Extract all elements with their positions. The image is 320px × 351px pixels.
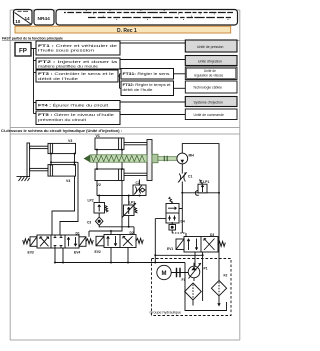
svg-text:V1: V1 bbox=[96, 134, 100, 138]
svg-text:Unité de commande: Unité de commande bbox=[194, 113, 224, 117]
svg-text:Ci-dessous le schéma du circui: Ci-dessous le schéma du circuit hydrauli… bbox=[1, 128, 122, 133]
FT3 box bbox=[36, 70, 118, 82]
T collector line bbox=[155, 254, 202, 256]
FT5 box bbox=[36, 111, 120, 125]
svg-text:M: M bbox=[162, 271, 167, 277]
svg-text:C3: C3 bbox=[87, 221, 91, 225]
LP collector bbox=[99, 227, 134, 235]
wire FT5 to SC6 bbox=[120, 114, 185, 116]
svg-text:V3: V3 bbox=[68, 139, 72, 143]
pump P1 bbox=[188, 266, 200, 278]
flow control C2 bbox=[133, 185, 146, 196]
wire FT32 to SC4 bbox=[174, 87, 186, 89]
svg-text:Unité de pression: Unité de pression bbox=[197, 45, 224, 49]
svg-text:Système d’injection: Système d’injection bbox=[194, 100, 223, 104]
FAST wires bbox=[31, 43, 185, 115]
clamp rod top bbox=[30, 146, 48, 148]
distributor D1 bbox=[23, 235, 94, 248]
cylinder V4 bbox=[48, 165, 76, 177]
spine bbox=[33, 49, 35, 114]
svg-text:EV4: EV4 bbox=[74, 251, 80, 255]
svg-text:débit de l’huile: débit de l’huile bbox=[38, 77, 78, 81]
cylinder V2 bbox=[95, 169, 124, 181]
svg-text:F2: F2 bbox=[224, 274, 228, 278]
wire FT4 to SC5 bbox=[120, 101, 185, 103]
svg-text:Unité de: Unité de bbox=[204, 69, 216, 73]
cylinder V1 bbox=[95, 138, 124, 150]
SC4 Technologie cablee bbox=[185, 81, 237, 93]
svg-text:10: 10 bbox=[15, 19, 21, 24]
FP box bbox=[15, 43, 31, 57]
svg-text:LP1: LP1 bbox=[203, 180, 209, 184]
cylinder V3 bbox=[48, 143, 76, 153]
tan D.Rec bar bbox=[15, 26, 231, 33]
screw collar bbox=[152, 154, 158, 163]
relief LP2 bbox=[94, 196, 108, 218]
svg-text:LP3: LP3 bbox=[129, 200, 135, 204]
SC5 Systeme d'injection bbox=[185, 97, 237, 107]
svg-text:Unité d’injection: Unité d’injection bbox=[198, 59, 222, 63]
clamp platen bbox=[27, 143, 30, 177]
svg-text:C2: C2 bbox=[136, 181, 140, 185]
FT31 box bbox=[121, 69, 174, 80]
pressure rail to return bbox=[182, 192, 219, 194]
FT32 box bbox=[121, 81, 174, 96]
schematic grey frame bbox=[10, 134, 240, 340]
arabic exam title line 1+2 (squiggle) bbox=[64, 13, 233, 18]
wire spine to FT4 bbox=[34, 102, 37, 104]
dashed groupe box bbox=[152, 259, 232, 316]
wires D1 bottom bbox=[55, 248, 63, 263]
svg-text:débit de l’huile: débit de l’huile bbox=[123, 88, 153, 92]
wire FT31 to SC3 bbox=[174, 73, 186, 75]
wire V4 port down jog to D1-A bbox=[52, 176, 75, 235]
screw tip bbox=[84, 155, 91, 162]
clamp rod bottom bbox=[30, 168, 48, 170]
svg-text:D1: D1 bbox=[76, 231, 80, 235]
diagonal in page box bbox=[15, 13, 32, 25]
SC6 Unite de commande bbox=[185, 109, 237, 120]
relief LP3 bbox=[122, 196, 138, 228]
SC3 Unite de regulation bbox=[185, 67, 237, 80]
return line bbox=[55, 263, 185, 303]
wire V3L-V4L tie bbox=[50, 154, 52, 165]
LP rail horizontal bbox=[97, 195, 140, 197]
svg-text:FT5 : Gérer le niveau d’huile: FT5 : Gérer le niveau d’huile bbox=[38, 113, 114, 117]
svg-text:P1: P1 bbox=[204, 267, 208, 271]
motor MH bbox=[177, 153, 188, 164]
coupling bbox=[171, 263, 194, 278]
svg-text:D3: D3 bbox=[210, 233, 214, 237]
svg-text:V4: V4 bbox=[66, 179, 70, 183]
SC2 Unite d'injection bbox=[185, 56, 237, 66]
screw helix hatch bbox=[91, 155, 145, 161]
wire clamp horizontal bbox=[51, 161, 78, 163]
pilot box bbox=[169, 222, 186, 237]
distributor D2 bbox=[96, 235, 143, 248]
wires D3 bottom bbox=[195, 252, 203, 301]
labels cylinders bbox=[66, 134, 101, 187]
svg-text:D4: D4 bbox=[181, 220, 185, 224]
svg-text:C1: C1 bbox=[188, 175, 192, 179]
svg-text:F1: F1 bbox=[182, 278, 186, 282]
filter F2 bbox=[211, 281, 226, 304]
svg-text:EV3: EV3 bbox=[28, 251, 34, 255]
svg-text:MH: MH bbox=[189, 154, 195, 158]
svg-text:régulation de vitesse: régulation de vitesse bbox=[194, 74, 223, 78]
page table grey border bbox=[10, 10, 240, 340]
ground bbox=[17, 177, 30, 181]
FT4 box bbox=[36, 101, 120, 110]
wire spine to FT3 bbox=[34, 72, 37, 74]
svg-text:matière plastifiée du moule: matière plastifiée du moule bbox=[38, 64, 98, 68]
svg-text:V2: V2 bbox=[97, 183, 101, 187]
SC1 Unite de pression bbox=[185, 40, 237, 52]
wire D4 drain to collector bbox=[154, 219, 156, 263]
FT1 box bbox=[36, 41, 120, 55]
reference box NR44 bbox=[34, 10, 54, 26]
svg-text:FT32: Régler le temps et: FT32: Régler le temps et bbox=[123, 83, 171, 87]
screw shaft right bbox=[158, 157, 177, 161]
svg-text:Groupe hydraulique: Groupe hydraulique bbox=[150, 311, 182, 315]
svg-text:FT1 : Créer et véhiculer de: FT1 : Créer et véhiculer de bbox=[38, 44, 117, 48]
wire FT1 to SC1 bbox=[120, 42, 185, 44]
page-number box bbox=[14, 10, 33, 26]
wire spine to FT5 bbox=[34, 113, 37, 115]
FT2 box bbox=[36, 58, 120, 69]
wire V2L down to LP rail bbox=[96, 181, 98, 196]
check C3 bbox=[95, 217, 103, 227]
wire pilot stub to D1 bbox=[89, 231, 111, 237]
junction dots bbox=[50, 149, 220, 264]
screw body bbox=[90, 155, 147, 162]
motor M bbox=[157, 265, 171, 279]
exam title box bbox=[56, 10, 238, 26]
svg-text:EV1: EV1 bbox=[167, 247, 173, 251]
wire FT2 to SC2 bbox=[120, 59, 185, 61]
svg-text:prévention du circuit: prévention du circuit bbox=[38, 118, 86, 122]
FAST grey frame bbox=[10, 41, 240, 128]
wire FP to spine bbox=[31, 48, 36, 50]
wire motor bottom to C1 bbox=[181, 164, 183, 174]
svg-text:FT2 : Injecter et doser la: FT2 : Injecter et doser la bbox=[38, 60, 117, 64]
wire V1R-V2R tie bbox=[121, 150, 123, 169]
svg-text:LP2: LP2 bbox=[88, 199, 94, 203]
tank bbox=[185, 302, 227, 311]
page box tiny label bbox=[18, 10, 29, 12]
wire C1 down to pilot junction bbox=[181, 182, 183, 234]
carriage plate bbox=[147, 140, 152, 181]
wire spine to FT2 bbox=[34, 60, 37, 62]
svg-text:FT4 : Épurer l’huile du circui: FT4 : Épurer l’huile du circuit bbox=[38, 103, 108, 108]
reducing valve D4 bbox=[155, 197, 182, 223]
svg-text:l’huile sous pression: l’huile sous pression bbox=[38, 49, 94, 53]
svg-text:FT31: Régler le sens: FT31: Régler le sens bbox=[123, 72, 171, 76]
throttle C1 bbox=[178, 172, 187, 182]
wire V3R-V4R tie bbox=[74, 154, 76, 165]
wire motor top loop to return bbox=[182, 144, 219, 281]
filter F1 bbox=[185, 278, 202, 306]
wire V2R down jog to D2-A bbox=[111, 181, 122, 235]
wires D2 bottom bbox=[111, 248, 128, 263]
wire C2 feed bbox=[139, 180, 141, 186]
svg-text:D2: D2 bbox=[130, 231, 134, 235]
svg-text:EV2: EV2 bbox=[95, 250, 101, 254]
svg-text:FP: FP bbox=[19, 48, 27, 55]
svg-text:Technologie câblée: Technologie câblée bbox=[193, 86, 222, 90]
svg-text:FT3 : Contrôler le sens et le: FT3 : Contrôler le sens et le bbox=[38, 72, 114, 76]
relief LP1 bbox=[195, 180, 207, 196]
svg-text:FAST partiel de la fonction pr: FAST partiel de la fonction principale bbox=[2, 37, 63, 41]
svg-text:D. Rec 1: D. Rec 1 bbox=[117, 28, 137, 34]
wire V1L-V2L tie bbox=[96, 150, 98, 169]
distributor D3 bbox=[176, 237, 225, 253]
svg-text:NR44: NR44 bbox=[38, 16, 51, 22]
svg-text:14: 14 bbox=[25, 16, 31, 21]
wire tie down jog to D1-B bbox=[60, 162, 78, 235]
bracket FT3 to FT31/FT32 bbox=[118, 74, 121, 89]
